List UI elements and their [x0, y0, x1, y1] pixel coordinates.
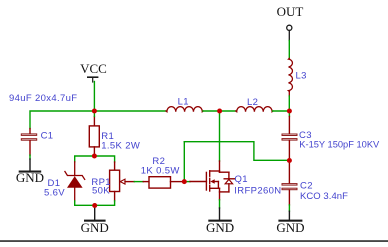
wire L1 to drain node [203, 110, 220, 112]
potentiometer RP1 [110, 162, 135, 201]
svg-text:IRFP260N: IRFP260N [234, 185, 281, 196]
inductor L1 [166, 107, 203, 112]
node C3/C2/gate net [287, 158, 292, 163]
wire R1 top stub [93, 111, 95, 116]
wire C1 to ground [29, 155, 31, 159]
wire gate riser (R2 node up) [183, 142, 185, 182]
wire gate net horizontal [184, 142, 289, 161]
wire L3 to node [288, 91, 290, 111]
node loop bottom / ground [92, 203, 97, 208]
svg-text:50K: 50K [92, 186, 110, 197]
zener diode D1 [65, 162, 85, 201]
sheet border line [0, 240, 388, 242]
wire bus VCC node to L1 [94, 110, 166, 112]
inductor L2 [236, 107, 273, 112]
svg-text:KCO 3.4nF: KCO 3.4nF [300, 191, 348, 202]
node R1/D1/RP1 [92, 154, 97, 159]
svg-text:VCC: VCC [80, 61, 107, 76]
ground (D1/RP1 loop) [81, 206, 109, 236]
wire Q1 source to ground [219, 200, 221, 208]
capacitor C3 [282, 116, 297, 160]
wire OUT terminal to L3 [288, 31, 290, 59]
svg-text:C1: C1 [41, 130, 54, 141]
power symbol VCC [88, 77, 98, 82]
wire loop bottom rail [75, 201, 115, 206]
node VCC/C1/R1 junction [92, 109, 97, 114]
svg-text:5.6V: 5.6V [44, 188, 65, 199]
svg-text:94uF 20x4.7uF: 94uF 20x4.7uF [9, 93, 77, 104]
wire VCC to bus [93, 82, 95, 112]
wire top bus (C1 corner to VCC node) [30, 111, 94, 129]
svg-text:L1: L1 [178, 96, 189, 107]
node L1/L2/Q1 drain [217, 109, 222, 114]
ground (C2) [276, 211, 304, 235]
node L2/L3/C3 junction [287, 109, 292, 114]
capacitor C1 [21, 129, 36, 156]
inductor L3 [289, 58, 293, 91]
wire node down to C3 [288, 111, 290, 116]
node R2/Q1 gate [182, 179, 187, 184]
resistor R2 [143, 177, 184, 188]
capacitor C2 [282, 161, 297, 205]
svg-text:L2: L2 [247, 97, 258, 108]
svg-text:OUT: OUT [277, 4, 304, 19]
wire loop top rail [75, 156, 115, 162]
resistor R1 [89, 116, 99, 155]
wire Q1 drain riser [219, 111, 221, 161]
svg-text:GND: GND [276, 220, 304, 235]
svg-text:1.5K 2W: 1.5K 2W [101, 141, 140, 152]
svg-text:L3: L3 [296, 70, 307, 81]
svg-text:Q1: Q1 [235, 174, 248, 185]
svg-text:GND: GND [16, 170, 44, 185]
svg-text:K-15Y 150pF 10KV: K-15Y 150pF 10KV [299, 139, 380, 149]
svg-text:GND: GND [206, 220, 234, 235]
wire drain node to L2 [220, 110, 236, 112]
svg-text:1K 0.5W: 1K 0.5W [141, 166, 180, 177]
ground (C1) [16, 159, 44, 185]
wire RP1 wiper to R2 [134, 181, 143, 183]
terminal OUT [287, 25, 292, 30]
wire C2 to ground [288, 205, 290, 211]
wire node to Q1 gate [184, 181, 206, 183]
svg-text:GND: GND [81, 220, 109, 235]
wire L2 to out node [273, 110, 290, 112]
ground (Q1) [206, 208, 234, 235]
transistor Q1 [206, 161, 234, 200]
